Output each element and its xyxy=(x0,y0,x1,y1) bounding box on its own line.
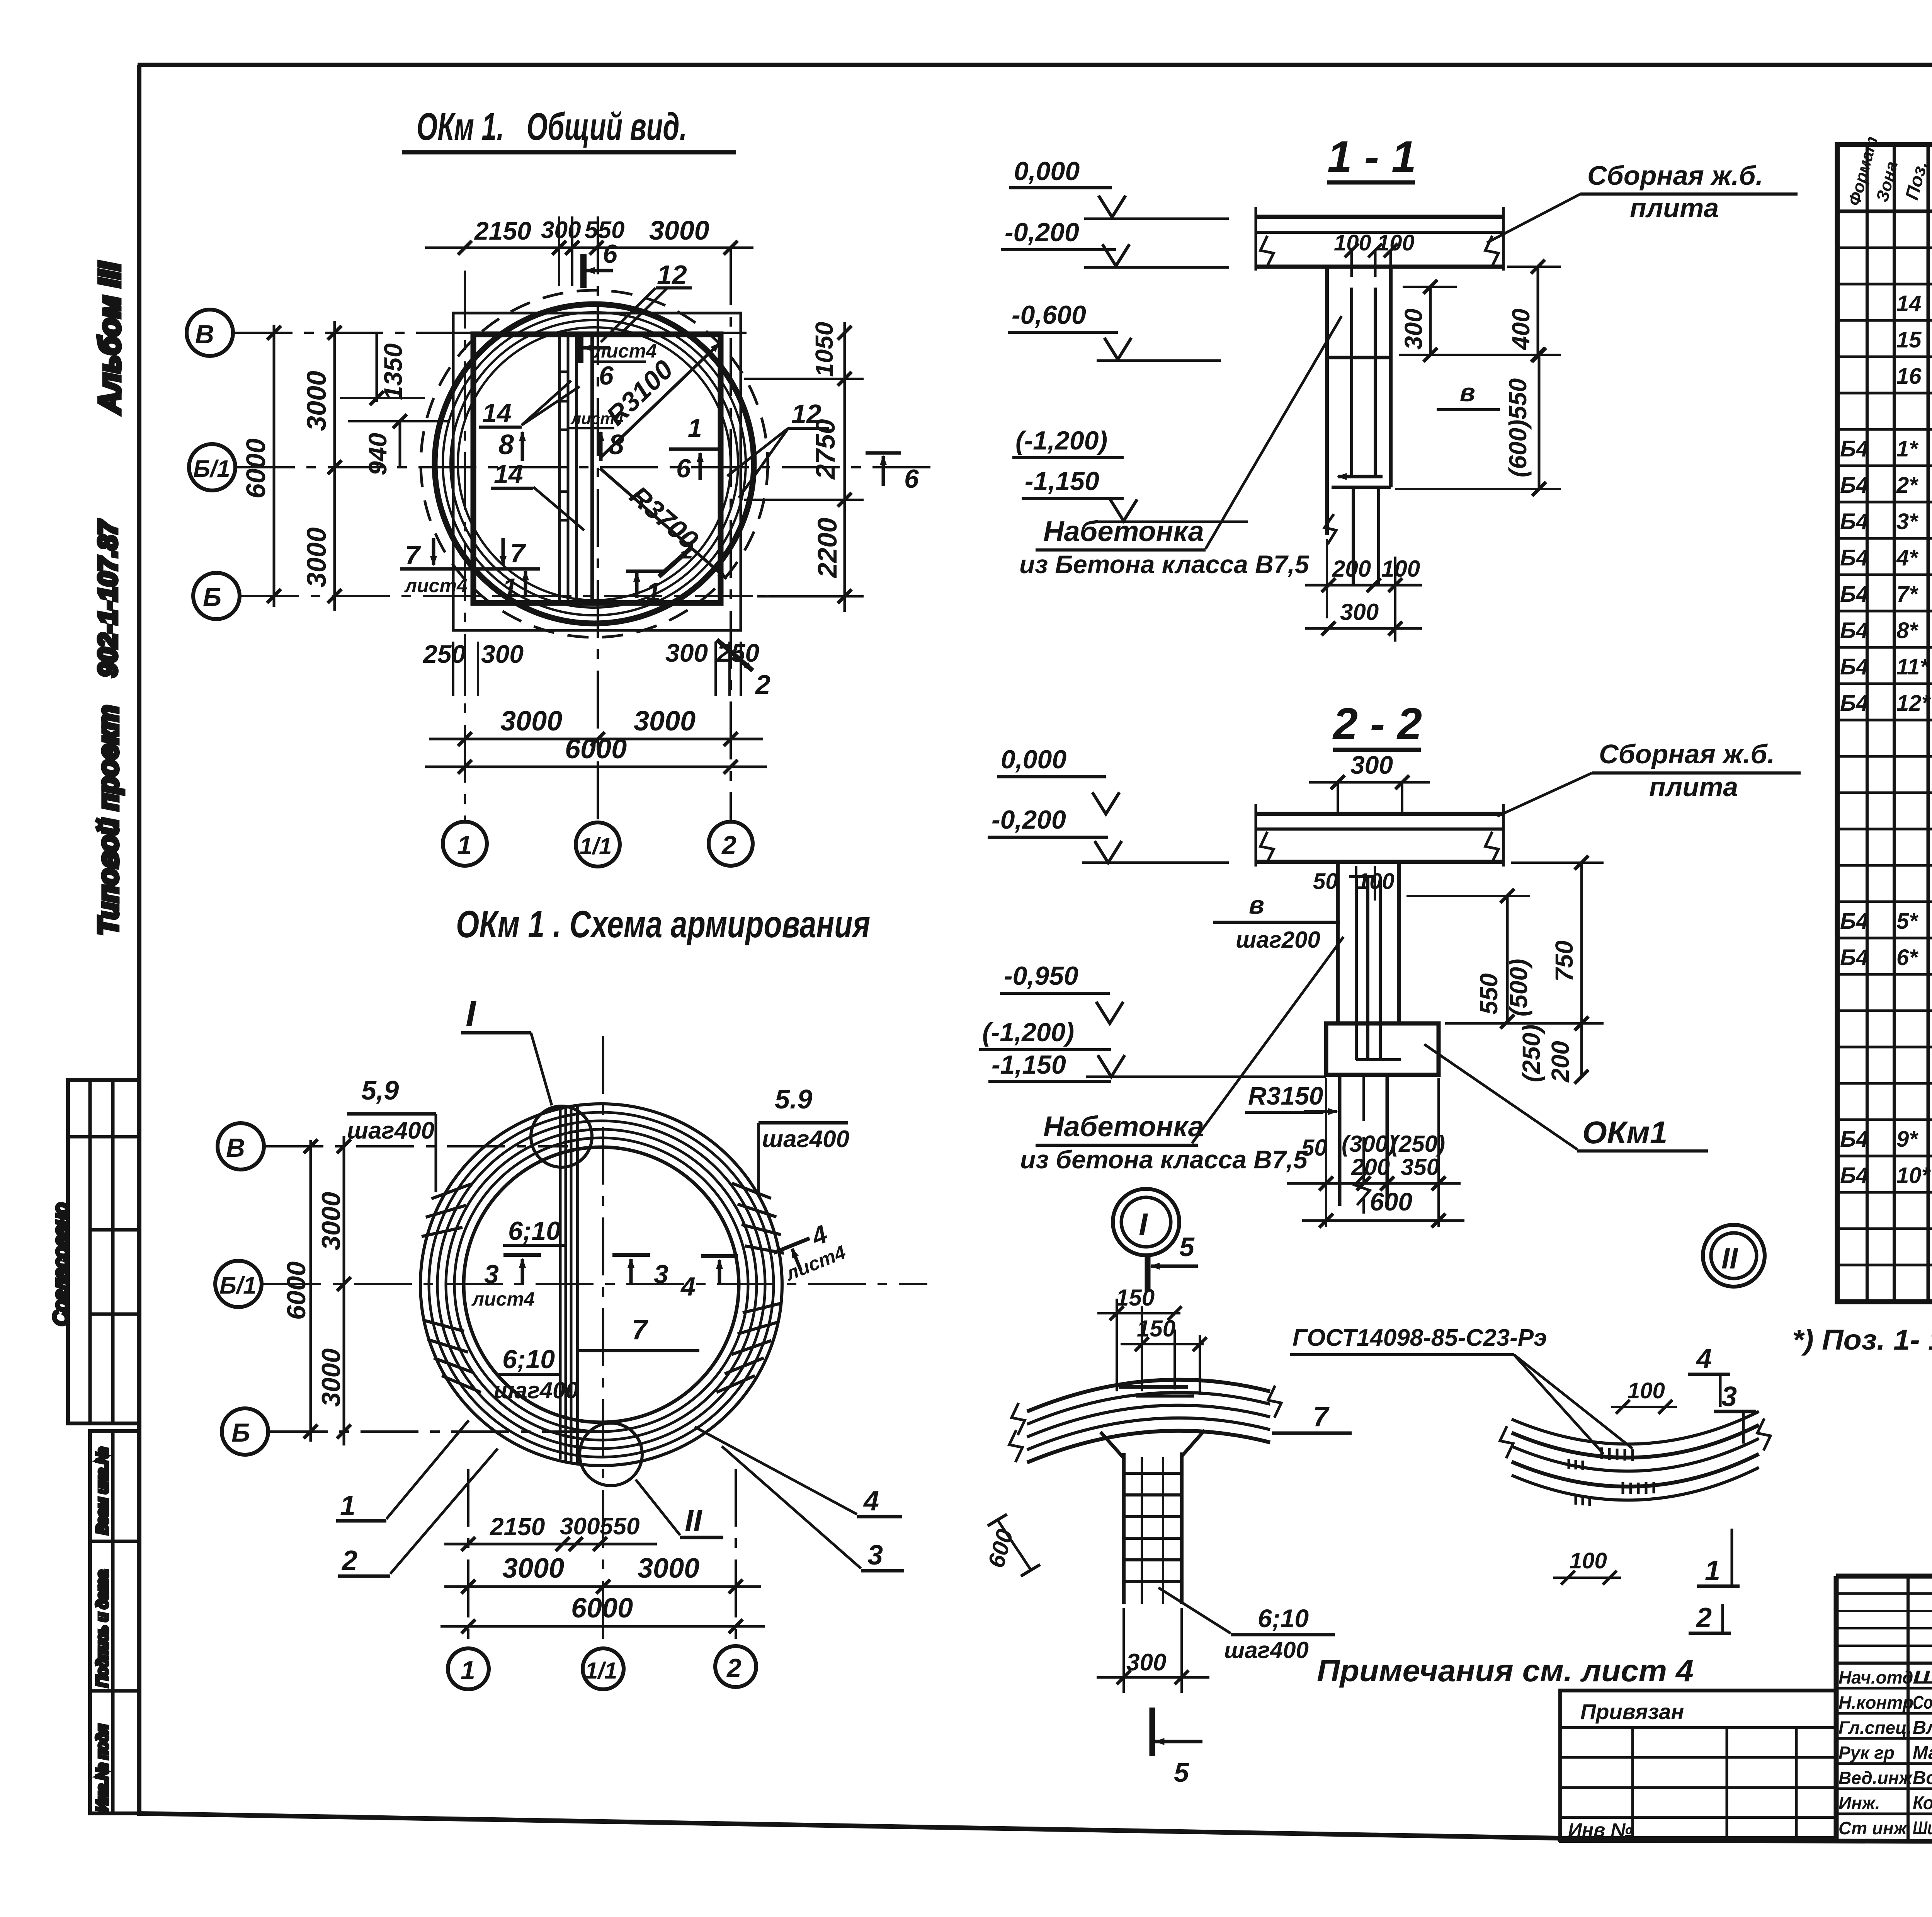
svg-text:2150: 2150 xyxy=(490,1513,545,1541)
detail circle II double xyxy=(1703,1225,1765,1287)
grid bubble Б xyxy=(193,573,240,619)
top dimension line xyxy=(425,247,753,249)
svg-text:Согласовано: Согласовано xyxy=(50,1203,72,1326)
svg-text:Сборная ж.б.: Сборная ж.б. xyxy=(1587,160,1763,191)
svg-text:-0,200: -0,200 xyxy=(1005,218,1079,247)
svg-text:в: в xyxy=(1460,378,1475,407)
label R3700 with arrow xyxy=(600,468,726,579)
svg-text:ОКм 1. Общий вид.: ОКм 1. Общий вид. xyxy=(417,105,687,148)
svg-text:1: 1 xyxy=(1705,1555,1720,1586)
svg-text:Мазалова: Мазалова xyxy=(1913,1743,1932,1763)
slab break marks xyxy=(1260,832,1274,863)
svg-text:-0,200: -0,200 xyxy=(992,805,1066,834)
svg-text:I: I xyxy=(466,993,477,1034)
svg-text:250: 250 xyxy=(422,640,466,668)
svg-text:Вед.инж: Вед.инж xyxy=(1838,1768,1913,1788)
svg-text:50: 50 xyxy=(1301,1135,1327,1161)
svg-text:В: В xyxy=(195,320,214,349)
svg-text:Корнюкин: Корнюкин xyxy=(1913,1793,1932,1813)
svg-text:шаг400: шаг400 xyxy=(347,1117,434,1144)
svg-text:1: 1 xyxy=(457,831,472,860)
svg-text:6;10: 6;10 xyxy=(1258,1604,1309,1633)
LEFTMARGIN xyxy=(50,262,139,1813)
svg-text:14: 14 xyxy=(494,460,523,489)
signature rows xyxy=(1836,1687,1932,1690)
grid bubble Б/1 xyxy=(189,444,235,490)
svg-text:6: 6 xyxy=(904,464,919,494)
svg-text:Возианов: Возианов xyxy=(1913,1768,1932,1788)
grid bubble 1/1 xyxy=(576,822,620,867)
grid bubble 1 xyxy=(443,822,487,866)
svg-text:Б4: Б4 xyxy=(1840,945,1868,970)
svg-text:Нач.отд.: Нач.отд. xyxy=(1838,1667,1918,1687)
detail II band end breaks xyxy=(1500,1426,1513,1458)
row lines xyxy=(1837,247,1932,249)
svg-text:3000: 3000 xyxy=(634,706,696,737)
dim 1350 xyxy=(376,333,378,402)
svg-text:ОКм 1 . Схема армирования: ОКм 1 . Схема армирования xyxy=(456,903,870,945)
section arrow 2 inner xyxy=(659,549,690,577)
svg-text:15: 15 xyxy=(1896,327,1922,352)
dim 2150 300 550 xyxy=(444,1543,657,1546)
grid bubble 1 xyxy=(448,1648,489,1689)
detail I ladder walls xyxy=(1122,1453,1126,1604)
grid bubble Б/1 xyxy=(215,1261,262,1307)
svg-text:6;10: 6;10 xyxy=(508,1216,561,1246)
svg-text:3000: 3000 xyxy=(502,1553,564,1584)
frame bottom line (slight scan skew) xyxy=(137,1813,1932,1843)
svg-text:из бетона класса В7,5: из бетона класса В7,5 xyxy=(1020,1145,1308,1174)
svg-text:600: 600 xyxy=(1370,1187,1412,1216)
svg-text:3: 3 xyxy=(867,1540,883,1571)
svg-text:4: 4 xyxy=(680,1272,696,1301)
frame top line xyxy=(138,63,1932,67)
svg-text:Инв.№ подл: Инв.№ подл xyxy=(94,1725,111,1812)
svg-text:2*: 2* xyxy=(1896,473,1918,498)
svg-text:Б4: Б4 xyxy=(1840,1127,1868,1152)
svg-text:2: 2 xyxy=(726,1653,742,1683)
svg-text:3000: 3000 xyxy=(301,371,332,431)
svg-text:14: 14 xyxy=(1896,291,1922,316)
dim 600 slanted left xyxy=(997,1519,1031,1570)
svg-text:300: 300 xyxy=(481,640,524,668)
axis 2 vertical xyxy=(730,247,732,822)
revision thin rows xyxy=(1836,1592,1932,1595)
svg-text:1: 1 xyxy=(688,414,702,442)
svg-text:Подпись и дата: Подпись и дата xyxy=(94,1570,111,1687)
frame left line xyxy=(137,65,141,1814)
bottom dims 200 100 300 xyxy=(1326,539,1328,618)
stem walls xyxy=(1336,862,1340,1023)
svg-text:2: 2 xyxy=(341,1545,357,1576)
svg-text:3: 3 xyxy=(484,1260,499,1289)
svg-text:Н.контр.: Н.контр. xyxy=(1838,1692,1918,1713)
hatch ticks left lower xyxy=(423,1317,464,1334)
Согласовано stamp box xyxy=(68,1080,139,1423)
svg-text:-1,150: -1,150 xyxy=(992,1050,1066,1079)
svg-text:(500): (500) xyxy=(1505,959,1532,1016)
svg-text:8: 8 xyxy=(498,429,514,460)
section flag 6 inside xyxy=(577,332,583,363)
svg-text:8*: 8* xyxy=(1896,618,1918,643)
detail I hook marks top xyxy=(1119,1385,1188,1389)
section flag 6 above square xyxy=(580,254,587,288)
svg-text:Б/1: Б/1 xyxy=(193,456,230,482)
svg-text:0,000: 0,000 xyxy=(1001,745,1066,774)
svg-text:Б4: Б4 xyxy=(1840,582,1868,607)
svg-text:300: 300 xyxy=(1400,308,1427,350)
title block top border xyxy=(1836,1574,1932,1579)
svg-text:Б4: Б4 xyxy=(1840,618,1868,643)
svg-text:I: I xyxy=(1139,1207,1148,1242)
svg-text:лист4: лист4 xyxy=(404,575,468,596)
svg-text:550: 550 xyxy=(1475,973,1503,1015)
svg-text:200: 200 xyxy=(1351,1154,1390,1180)
svg-text:100: 100 xyxy=(1570,1548,1607,1573)
svg-text:902-1-107.87: 902-1-107.87 xyxy=(93,519,122,677)
hatch ticks right lower xyxy=(743,1301,782,1316)
svg-text:4: 4 xyxy=(863,1486,879,1517)
svg-text:200: 200 xyxy=(1546,1041,1574,1083)
svg-text:Гл.спец.: Гл.спец. xyxy=(1838,1718,1912,1738)
svg-text:Б4: Б4 xyxy=(1840,1163,1868,1188)
stem rebar xyxy=(1355,877,1358,1060)
svg-text:В: В xyxy=(226,1133,245,1163)
SEC11 xyxy=(1001,132,1798,642)
svg-text:6: 6 xyxy=(599,361,614,390)
svg-text:2: 2 xyxy=(721,831,736,860)
svg-text:6;10: 6;10 xyxy=(502,1345,555,1374)
dim line 6000 lower xyxy=(425,766,767,768)
svg-text:3000: 3000 xyxy=(301,527,332,587)
svg-text:Привязан: Привязан xyxy=(1580,1699,1684,1724)
title block verticals xyxy=(1834,1576,1839,1840)
svg-text:Б4: Б4 xyxy=(1840,436,1868,461)
svg-text:(250): (250) xyxy=(1517,1025,1545,1082)
svg-text:Шейко: Шейко xyxy=(1913,1667,1932,1688)
svg-text:-0,950: -0,950 xyxy=(1004,961,1078,991)
hatch ticks right upper xyxy=(732,1181,771,1201)
svg-text:(-1,200): (-1,200) xyxy=(1015,426,1107,455)
svg-text:50: 50 xyxy=(1313,869,1338,894)
svg-text:плита: плита xyxy=(1649,772,1738,802)
svg-text:шаг200: шаг200 xyxy=(1236,927,1320,953)
grid bubble В xyxy=(218,1123,264,1170)
svg-text:12: 12 xyxy=(657,260,687,290)
svg-text:1 - 1: 1 - 1 xyxy=(1327,132,1416,182)
svg-text:4: 4 xyxy=(1696,1343,1712,1374)
svg-text:3000: 3000 xyxy=(316,1348,346,1407)
svg-text:2 - 2: 2 - 2 xyxy=(1332,699,1422,749)
svg-text:750: 750 xyxy=(1550,940,1578,982)
svg-text:300: 300 xyxy=(1126,1649,1166,1676)
reinforcement rings xyxy=(420,1104,782,1466)
svg-text:ОКм1: ОКм1 xyxy=(1582,1115,1667,1150)
svg-text:6000: 6000 xyxy=(571,1593,633,1624)
stem rebar xyxy=(1350,288,1353,477)
svg-text:Набетонка: Набетонка xyxy=(1043,515,1204,547)
svg-text:Рук гр: Рук гр xyxy=(1838,1743,1895,1763)
dim 550 (500) xyxy=(1506,896,1509,1021)
svg-text:350: 350 xyxy=(1401,1154,1439,1180)
svg-text:Примечания см. лист 4: Примечания см. лист 4 xyxy=(1317,1653,1694,1688)
grid bubble В xyxy=(187,310,233,356)
svg-text:(300): (300) xyxy=(1342,1131,1396,1157)
footing block xyxy=(1326,1023,1439,1075)
axis 1/1 vertical xyxy=(602,1036,604,1648)
svg-text:300: 300 xyxy=(665,638,708,667)
svg-text:0,000: 0,000 xyxy=(1014,157,1080,186)
section flag 5 upper xyxy=(1145,1256,1151,1292)
svg-text:6*: 6* xyxy=(1896,945,1918,970)
axis 2 vertical stub xyxy=(735,1469,737,1646)
svg-text:3000: 3000 xyxy=(649,215,709,245)
column lines xyxy=(1866,145,1869,1302)
svg-text:3000: 3000 xyxy=(638,1553,699,1584)
svg-text:10*: 10* xyxy=(1896,1163,1931,1188)
svg-text:1*: 1* xyxy=(1896,436,1918,461)
svg-text:Типовой проект: Типовой проект xyxy=(93,705,124,935)
label 3 left flag xyxy=(503,1253,541,1257)
section arrow 2 outer xyxy=(717,640,753,671)
SEC22 xyxy=(979,699,1801,1292)
outer square outline xyxy=(453,313,741,630)
left dim 3000/3000/6000 vertical xyxy=(343,1136,345,1445)
svg-text:7*: 7* xyxy=(1896,582,1918,607)
svg-text:5: 5 xyxy=(1179,1232,1195,1262)
dim 940 xyxy=(399,421,401,467)
svg-text:300: 300 xyxy=(541,217,581,243)
detail circle II xyxy=(580,1423,642,1486)
dim 6000 xyxy=(440,1625,765,1628)
svg-text:1: 1 xyxy=(340,1490,355,1521)
svg-text:7: 7 xyxy=(632,1314,648,1345)
svg-text:Власенко: Власенко xyxy=(1913,1718,1932,1738)
svg-text:(600)550: (600)550 xyxy=(1504,378,1532,477)
svg-text:550: 550 xyxy=(600,1513,639,1540)
svg-text:3: 3 xyxy=(654,1260,668,1289)
svg-text:5*: 5* xyxy=(1896,909,1918,934)
svg-text:Ст инж: Ст инж xyxy=(1838,1818,1908,1838)
label 4 лист4 slanted right xyxy=(769,1216,849,1286)
detail circle I xyxy=(531,1106,592,1167)
section flag 5 lower xyxy=(1150,1708,1155,1756)
svg-text:2: 2 xyxy=(1696,1602,1712,1633)
dim line 3000 3000 lower xyxy=(429,738,763,741)
main ring circle thick xyxy=(435,304,754,623)
svg-text:7: 7 xyxy=(405,540,421,570)
svg-text:3000: 3000 xyxy=(500,706,562,737)
svg-text:Шильмовер: Шильмовер xyxy=(1913,1818,1932,1839)
grid bubble 2 xyxy=(715,1646,756,1687)
axis В horizontal xyxy=(265,1145,568,1147)
detail II band arcs xyxy=(1512,1411,1759,1444)
svg-text:II: II xyxy=(1721,1242,1738,1275)
svg-text:R3150: R3150 xyxy=(1248,1081,1323,1110)
detail I band end breaks xyxy=(1012,1403,1025,1435)
svg-text:6000: 6000 xyxy=(282,1262,311,1320)
dim 750 xyxy=(1580,863,1583,1023)
svg-text:шаг400: шаг400 xyxy=(494,1377,578,1403)
svg-text:-0,600: -0,600 xyxy=(1012,300,1086,330)
svg-text:6000: 6000 xyxy=(241,438,271,499)
svg-text:Сокольская: Сокольская xyxy=(1913,1692,1932,1713)
svg-text:в: в xyxy=(1249,890,1264,919)
svg-text:14: 14 xyxy=(482,398,512,428)
svg-text:Б/1: Б/1 xyxy=(219,1272,257,1299)
axis Б horizontal xyxy=(270,1430,603,1433)
axis Б/1 horizontal xyxy=(263,1283,927,1285)
svg-text:6: 6 xyxy=(603,239,618,269)
svg-text:шаг400: шаг400 xyxy=(1224,1637,1309,1663)
TITLEBLOCK xyxy=(1560,1576,1932,1907)
grid bubble Б xyxy=(222,1408,268,1455)
svg-text:(-1,200): (-1,200) xyxy=(982,1018,1074,1047)
svg-text:8: 8 xyxy=(609,429,624,460)
DETAILS xyxy=(983,1285,1932,1788)
lower margin stamp box xyxy=(90,1431,139,1813)
svg-text:2150: 2150 xyxy=(474,216,531,245)
dashed outer circle xyxy=(421,290,768,637)
svg-text:лист4: лист4 xyxy=(570,409,624,427)
axis Б/1 horizontal xyxy=(237,466,935,468)
dim (250) 200 xyxy=(1580,1023,1583,1077)
extension verticals to band xyxy=(1116,1299,1118,1391)
dim 3000 3000 xyxy=(444,1585,761,1588)
inner wall square xyxy=(473,334,721,603)
svg-text:ГОСТ14098-85-С23-Рэ: ГОСТ14098-85-С23-Рэ xyxy=(1293,1325,1547,1351)
svg-text:6: 6 xyxy=(676,454,691,483)
svg-text:5,9: 5,9 xyxy=(361,1075,399,1105)
svg-text:300: 300 xyxy=(560,1513,600,1540)
svg-text:6000: 6000 xyxy=(565,734,627,764)
svg-text:1350: 1350 xyxy=(379,343,407,400)
svg-text:шаг400: шаг400 xyxy=(762,1126,849,1153)
svg-text:Сборная ж.б.: Сборная ж.б. xyxy=(1599,739,1775,769)
detail II weld hatches xyxy=(1569,1447,1654,1506)
svg-text:1: 1 xyxy=(502,573,517,603)
svg-text:100: 100 xyxy=(1628,1378,1665,1403)
svg-text:Альбом III: Альбом III xyxy=(92,262,126,414)
svg-text:7: 7 xyxy=(510,538,526,568)
svg-text:5.9: 5.9 xyxy=(775,1084,812,1114)
grid bubble 2 xyxy=(709,822,753,866)
dim 400 xyxy=(1537,267,1539,355)
svg-text:Б4: Б4 xyxy=(1840,909,1868,934)
slab break marks xyxy=(1260,236,1274,267)
central channel bars xyxy=(559,1110,562,1459)
svg-text:Б4: Б4 xyxy=(1840,509,1868,534)
PLAN1 xyxy=(187,105,935,867)
axis 1 vertical stub xyxy=(467,1469,469,1648)
svg-text:7: 7 xyxy=(1313,1401,1330,1432)
central channel walls xyxy=(558,335,561,602)
label 3 right flag xyxy=(612,1253,650,1257)
slab lines xyxy=(1256,215,1503,219)
svg-text:2: 2 xyxy=(755,669,770,700)
svg-text:400: 400 xyxy=(1507,308,1535,351)
svg-text:2750: 2750 xyxy=(810,419,840,480)
svg-text:Б: Б xyxy=(203,582,221,612)
svg-text:3: 3 xyxy=(1721,1381,1737,1412)
axis 1 vertical xyxy=(464,271,466,822)
svg-text:из Бетона класса В7,5: из Бетона класса В7,5 xyxy=(1019,550,1310,579)
label T1 bottom center xyxy=(626,570,663,573)
svg-text:1: 1 xyxy=(646,577,661,607)
svg-text:100: 100 xyxy=(1334,230,1371,255)
svg-text:(250): (250) xyxy=(1391,1131,1445,1157)
detail I curved band arcs xyxy=(1027,1380,1270,1411)
detail I ladder rungs xyxy=(1124,1472,1182,1475)
dim 100 100 above stem xyxy=(1350,250,1353,277)
svg-text:Б4: Б4 xyxy=(1840,473,1868,498)
svg-text:Инв №: Инв № xyxy=(1568,1819,1633,1841)
svg-text:Б4: Б4 xyxy=(1840,654,1868,679)
svg-text:16: 16 xyxy=(1896,364,1922,389)
svg-text:200: 200 xyxy=(1332,556,1371,582)
svg-text:5: 5 xyxy=(1174,1757,1189,1788)
label 6 right flag xyxy=(866,451,901,455)
svg-text:плита: плита xyxy=(1630,193,1719,223)
table outer border xyxy=(1837,145,1932,1302)
header row line xyxy=(1837,209,1932,213)
svg-text:300: 300 xyxy=(1340,599,1379,625)
svg-text:100: 100 xyxy=(1377,230,1415,255)
dim 300 right of stem xyxy=(1429,287,1432,355)
svg-text:3000: 3000 xyxy=(316,1192,346,1250)
svg-text:II: II xyxy=(685,1503,702,1538)
svg-text:лист4: лист4 xyxy=(471,1288,535,1310)
svg-text:-1,150: -1,150 xyxy=(1025,466,1099,496)
inner formwork circles xyxy=(443,312,746,615)
svg-text:Б4: Б4 xyxy=(1840,545,1868,570)
stem walls xyxy=(1325,267,1329,535)
Привязан box xyxy=(1560,1691,1836,1838)
hatch ticks left upper xyxy=(422,1181,784,1395)
slab lines xyxy=(1256,812,1503,816)
channel rungs xyxy=(560,371,568,373)
left dim line 3000/3000 xyxy=(333,321,336,611)
svg-text:Инж.: Инж. xyxy=(1838,1793,1880,1813)
svg-text:300: 300 xyxy=(1350,751,1393,779)
svg-text:940: 940 xyxy=(363,433,392,475)
svg-text:3*: 3* xyxy=(1896,509,1918,534)
svg-text:1/1: 1/1 xyxy=(585,1658,617,1684)
svg-text:Б4: Б4 xyxy=(1840,691,1868,716)
svg-text:1050: 1050 xyxy=(810,322,838,377)
axis 1/1 vertical xyxy=(597,216,599,823)
svg-text:лист4: лист4 xyxy=(594,340,657,362)
svg-text:Б: Б xyxy=(231,1418,250,1447)
bottom small dims 250 300 300 250 xyxy=(452,642,454,696)
right dim chain 1050 2750 2200 xyxy=(844,322,846,612)
detail circle I double xyxy=(1113,1189,1179,1255)
svg-text:4*: 4* xyxy=(1896,545,1918,570)
svg-text:1: 1 xyxy=(461,1656,475,1685)
label 4 flag xyxy=(701,1254,738,1258)
svg-text:1/1: 1/1 xyxy=(580,833,612,859)
left dim line 6000 xyxy=(273,325,276,607)
svg-text:Взам инв.№: Взам инв.№ xyxy=(94,1447,111,1534)
svg-text:12*: 12* xyxy=(1896,691,1931,716)
PLAN2 xyxy=(215,903,927,1689)
dim (600)550 xyxy=(1538,355,1541,489)
axis Б horizontal xyxy=(241,595,769,597)
detail I ladder flares xyxy=(1100,1432,1124,1458)
label R3100 with arrow xyxy=(600,343,719,458)
svg-text:2: 2 xyxy=(680,537,693,564)
svg-text:*) Поз. 1- 12 см. Ведомость: *) Поз. 1- 12 см. Ведомость деталей xyxy=(1792,1324,1932,1356)
